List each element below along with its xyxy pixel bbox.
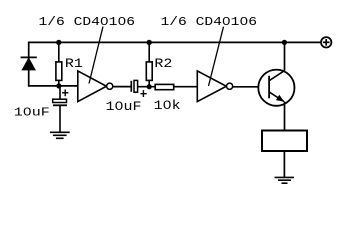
resistor R2 (146, 42, 152, 86)
wire: lower-left horizontal (input node) (28, 85, 78, 87)
junction dot: collector / top rail (282, 40, 287, 45)
load box (262, 131, 307, 152)
junction dot: C2 / R2 / 10k node (147, 84, 152, 89)
label 1/6 CD40106 (U2) (161, 15, 258, 29)
leader line U2 (209, 27, 224, 86)
wire: 10k to U2 input (174, 86, 198, 88)
ground under C1 (50, 132, 70, 138)
wire: load to ground (283, 151, 285, 177)
label 1/6 CD40106 (U1) (39, 15, 136, 29)
inverter U2 (197, 71, 232, 102)
inverter U1 (78, 71, 113, 102)
diode D1 (22, 58, 35, 70)
plus sign C1 (62, 90, 68, 97)
label 10k (154, 98, 181, 113)
junction dot: R2 / top rail (147, 40, 152, 45)
wire: Q1 collector to top rail (284, 42, 286, 70)
wire: top supply rail (29, 41, 322, 43)
resistor 10k (horizontal) (155, 84, 174, 89)
wire: U2 output to Q1 base (233, 86, 259, 88)
plus sign C2 (140, 90, 146, 97)
wire: U1 output to C2 (113, 86, 132, 88)
leader line U1 (89, 27, 103, 84)
wire: left diode branch vertical (28, 42, 30, 86)
resistor R1 (56, 42, 62, 86)
capacitor C1 10uF (polarized, vertical) (53, 86, 67, 132)
svg-text:R1: R1 (65, 56, 83, 71)
junction dot: R1 bottom input node (56, 83, 61, 88)
capacitor C2 10uF (polarized, horizontal) (131, 80, 137, 92)
wire: C2 to node (138, 86, 156, 88)
diode D1 cathode bar (21, 56, 37, 58)
label 10uF (C1) (14, 105, 50, 119)
svg-text:10uF: 10uF (106, 100, 142, 114)
ground under load (275, 177, 295, 183)
label 10uF (C2) (106, 100, 142, 114)
wire: Q1 emitter to load (284, 102, 286, 131)
svg-text:R2: R2 (154, 56, 172, 71)
power terminal plus circle (321, 37, 331, 47)
transistor Q1 (258, 70, 294, 106)
junction dot: R1 / top rail (56, 40, 61, 45)
svg-text:10uF: 10uF (14, 105, 50, 119)
